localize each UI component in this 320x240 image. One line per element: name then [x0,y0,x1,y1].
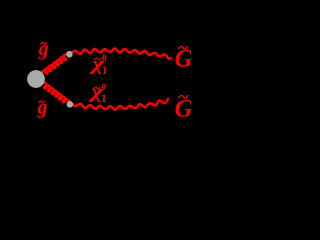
svg-text:g: g [37,97,48,119]
svg-text:0: 0 [102,82,107,92]
svg-text:G: G [175,46,191,73]
svg-text:0: 0 [102,53,107,63]
svg-text:G: G [175,96,191,123]
svg-text:1: 1 [101,92,107,105]
svg-text:g: g [38,38,49,60]
svg-text:1: 1 [102,64,108,77]
